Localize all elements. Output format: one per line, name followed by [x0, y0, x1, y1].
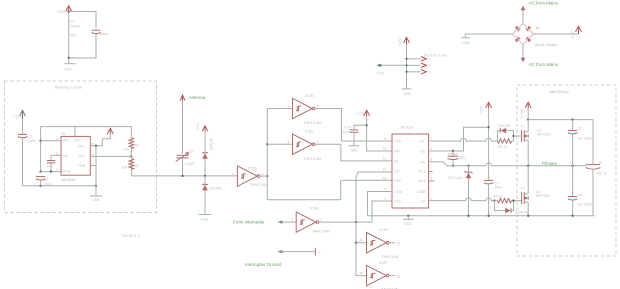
svg-text:IC2B: IC2B: [248, 166, 257, 171]
wire bridge minus to gnd: [465, 34, 512, 37]
svg-text:IC2D: IC2D: [305, 93, 314, 98]
trimmer capacitor C16: [176, 153, 189, 162]
svg-text:3: 3: [385, 187, 387, 191]
pin stub R4: [429, 171, 433, 173]
mosfet Q1: [522, 120, 529, 166]
dashed box Half Bridge: [517, 85, 616, 256]
wire to IC2E input: [356, 242, 367, 244]
svg-text:COM: COM: [394, 190, 402, 194]
svg-text:VSS: VSS: [394, 200, 402, 204]
svg-text:8: 8: [317, 104, 319, 108]
svg-text:C8: C8: [578, 193, 583, 197]
svg-text:74HC14N: 74HC14N: [312, 228, 330, 233]
junction mid node: [527, 165, 529, 167]
junction C4 bottom: [50, 170, 52, 172]
svg-text:100pF: 100pF: [185, 162, 195, 166]
wire riser to LIN pin: [341, 179, 392, 181]
wire interrupter to IC2A: [281, 221, 297, 223]
svg-text:IRFP250: IRFP250: [537, 133, 551, 137]
svg-text:T1: T1: [521, 124, 525, 128]
svg-text:T2: T2: [521, 186, 525, 190]
junction antenna-bus: [181, 175, 183, 177]
svg-text:GND: GND: [403, 92, 411, 96]
wire to IC2C input: [267, 143, 292, 145]
wire bridge AC top with arrow: [521, 6, 526, 24]
wire V1 lower: [488, 184, 490, 216]
wire bottom rail: [23, 185, 97, 187]
pin stub R5: [429, 180, 435, 182]
wire VCC down to rail: [95, 146, 97, 186]
svg-text:1N4744A: 1N4744A: [448, 176, 463, 180]
wire cap to rail: [22, 138, 24, 186]
svg-text:AC from Mains: AC from Mains: [529, 62, 559, 67]
junction Q2 source gnd: [527, 215, 529, 217]
svg-text:9: 9: [385, 137, 387, 141]
svg-text:100nF: 100nF: [70, 24, 80, 28]
svg-text:SD: SD: [394, 160, 399, 164]
junction IC2B out: [266, 175, 268, 177]
pin arrow 2: [421, 63, 427, 67]
junction LO loop left: [493, 199, 495, 201]
junction gate B input tap: [266, 143, 268, 145]
wire IC2D out to HIN: [315, 109, 392, 142]
wire to IC pin TR: [41, 140, 61, 142]
wire to IC pin GND: [41, 171, 61, 173]
junction pin1: [405, 58, 407, 60]
svg-text:LIN: LIN: [394, 170, 400, 174]
node junction top: [68, 10, 70, 12]
svg-text:3: 3: [429, 71, 431, 75]
svg-text:HO: HO: [419, 140, 425, 144]
supply arrow P7: [486, 102, 492, 108]
svg-text:4: 4: [262, 172, 264, 176]
svg-text:2: 2: [321, 218, 323, 222]
svg-text:NC2: NC2: [419, 179, 426, 183]
svg-text:1N4148: 1N4148: [498, 124, 510, 128]
wire interrupter ground: [281, 251, 316, 253]
svg-text:VS: VS: [420, 160, 425, 164]
svg-text:5: 5: [431, 158, 433, 162]
capacitor C2 (polarized): [36, 177, 46, 180]
svg-text:74HC14N: 74HC14N: [381, 254, 399, 259]
svg-text:IC2E: IC2E: [379, 227, 388, 232]
wire JP1 vertical: [406, 45, 408, 89]
capacitor C6 divider top: [568, 120, 578, 166]
svg-text:100n: 100n: [28, 139, 36, 143]
wire JP1 pin3: [407, 71, 421, 73]
diode B1b: [526, 26, 532, 32]
svg-text:DC-DC Conv: DC-DC Conv: [424, 52, 447, 57]
svg-text:450 uF: 450 uF: [596, 172, 607, 176]
pin bar interrupter ground: [314, 248, 316, 256]
junction left pin3: [39, 170, 41, 172]
svg-text:35V: 35V: [459, 156, 466, 160]
svg-text:74HC14N: 74HC14N: [303, 120, 321, 125]
wire IC2B out: [260, 175, 267, 177]
diode B1a: [515, 26, 521, 32]
svg-text:IR2110: IR2110: [401, 125, 414, 130]
wire C10 to gnd: [353, 133, 355, 146]
wire OUT pin to resistor mid: [90, 155, 131, 157]
svg-text:IC2F: IC2F: [379, 260, 388, 265]
ground GND5: [403, 218, 414, 220]
svg-text:6: 6: [431, 147, 433, 151]
wire V1 upper: [488, 108, 490, 180]
wire antenna upper: [182, 101, 184, 154]
capacitor C9 bus: [586, 120, 601, 216]
IC1 body: [61, 136, 90, 175]
svg-text:IC1: IC1: [61, 131, 66, 135]
junction V1 gnd: [487, 215, 489, 217]
wire gnd stub: [68, 58, 70, 63]
wire gnd stub: [407, 216, 409, 219]
svg-text:IC2C: IC2C: [305, 129, 314, 134]
svg-text:+12V: +12V: [14, 114, 23, 118]
svg-text:R3 10: R3 10: [498, 145, 507, 149]
supply arrow P6 HV: [525, 102, 531, 108]
svg-text:GND: GND: [64, 68, 72, 72]
svg-text:+12V: +12V: [376, 72, 385, 76]
node junction bottom: [68, 57, 70, 59]
junction divider mid: [571, 165, 573, 167]
wire IC top pin: [74, 127, 76, 137]
wire supply to VDD: [367, 116, 392, 151]
svg-text:GND: GND: [92, 198, 100, 202]
svg-text:10: 10: [397, 242, 401, 246]
resistor R2: [129, 159, 134, 170]
junction spare tap: [355, 221, 357, 223]
wire zener chain lower: [468, 178, 470, 215]
svg-text:100n: 100n: [494, 185, 502, 189]
wire clamp mid lower: [204, 176, 206, 184]
svg-text:13: 13: [360, 271, 364, 275]
junction resistor mid: [130, 155, 132, 157]
svg-text:1N4148: 1N4148: [516, 211, 528, 215]
resistor R1: [129, 138, 134, 149]
svg-text:7: 7: [431, 137, 433, 141]
svg-text:VDD: VDD: [394, 140, 402, 144]
svg-text:Antenna: Antenna: [189, 95, 206, 100]
svg-text:+12V: +12V: [398, 38, 402, 47]
wire VSS to rail: [368, 192, 393, 216]
resistor R4: [498, 198, 512, 202]
svg-text:GND: GND: [462, 41, 470, 45]
svg-text:10: 10: [383, 147, 387, 151]
svg-text:TS100 E 1: TS100 E 1: [121, 233, 141, 238]
svg-text:OUT: OUT: [78, 154, 86, 158]
svg-text:C5 1uF: C5 1uF: [448, 152, 458, 156]
svg-text:VSS: VSS: [394, 179, 402, 183]
wire IC2A out: [319, 201, 392, 222]
svg-text:AC from Mains: AC from Mains: [529, 1, 559, 6]
svg-text:11: 11: [383, 157, 386, 161]
capacitor C1 (polarized): [91, 30, 100, 33]
wire LO loop: [495, 201, 522, 211]
diode D3 (bypass): [500, 128, 506, 133]
svg-text:C3: C3: [28, 135, 32, 139]
wire clamp lower: [204, 190, 206, 214]
junction left pin1: [39, 140, 41, 142]
ground GND3: [199, 214, 212, 216]
wire C2 bottom lead: [40, 180, 42, 186]
junction pin3: [405, 71, 407, 73]
svg-text:13: 13: [383, 176, 387, 180]
supply +12V P1 top-left: [66, 6, 72, 12]
diode bridge B1 frame: [513, 24, 534, 45]
wire JP1 pin2: [407, 64, 421, 66]
diode D1 (clamp to V+): [202, 153, 208, 159]
junction bootstrap top: [452, 150, 454, 152]
svg-text:THR: THR: [78, 164, 86, 168]
svg-text:3: 3: [232, 172, 234, 176]
wire signal riser: [267, 109, 340, 200]
inverter IC2B: [237, 166, 260, 186]
svg-text:R4 10: R4 10: [493, 195, 502, 199]
wire IC2F out stub: [389, 275, 395, 277]
svg-text:R1: R1: [135, 143, 140, 147]
junction gnd tap: [407, 215, 409, 217]
svg-text:Interrupter Ground: Interrupter Ground: [245, 262, 282, 267]
ground GND2: [90, 195, 103, 197]
diode D4 (bypass): [505, 208, 511, 213]
junction C10 tap: [365, 124, 367, 126]
svg-text:25V: 25V: [70, 34, 77, 38]
inverter IC2D: [293, 98, 316, 118]
svg-text:1N4148: 1N4148: [210, 138, 214, 150]
svg-text:2: 2: [429, 64, 431, 68]
off-page arrow: [376, 64, 381, 67]
supply arrow P4: [202, 126, 208, 132]
capacitor C10: [350, 130, 359, 132]
svg-text:COM: COM: [417, 190, 425, 194]
wire VB row: [429, 127, 489, 151]
svg-text:IC2A: IC2A: [310, 205, 319, 210]
svg-text:2: 2: [385, 197, 387, 201]
svg-text:4: 4: [431, 177, 433, 181]
svg-text:IRFP250: IRFP250: [536, 194, 550, 198]
wire HV down: [527, 108, 529, 119]
wire VS row: [429, 162, 587, 166]
diode D2 (clamp to gnd): [202, 184, 208, 190]
svg-text:GND: GND: [63, 170, 71, 174]
junction clamp-bus: [204, 175, 206, 177]
wire IC2C out to SD: [315, 144, 392, 161]
svg-text:+12V: +12V: [479, 105, 483, 114]
svg-text:From Interrupter: From Interrupter: [233, 220, 265, 225]
ground GND6: [461, 37, 470, 39]
supply arrow P5: [364, 110, 370, 116]
svg-text:100n: 100n: [343, 130, 351, 134]
svg-text:C6: C6: [578, 127, 583, 131]
resistor R3: [498, 139, 512, 143]
svg-text:Boot-Up Circuit: Boot-Up Circuit: [55, 85, 83, 90]
supply arrow P3: [107, 128, 113, 134]
svg-text:GND: GND: [201, 218, 209, 222]
zener diode D5: [464, 171, 472, 178]
svg-text:VB: VB: [420, 150, 425, 154]
wire JP1 to gnd: [402, 88, 411, 90]
interrupter ground arrow: [278, 250, 283, 253]
ground stub IC: [95, 186, 97, 196]
wire cap branch top: [69, 12, 96, 29]
supply arrow P8 HV out: [576, 26, 582, 34]
capacitor C8 divider bottom: [568, 166, 578, 216]
IC3 driver body: [392, 134, 429, 208]
svg-text:+170V: +170V: [571, 29, 575, 40]
junction pin2: [405, 64, 407, 66]
wire diode loop verticals: [498, 131, 514, 141]
svg-text:NE555N: NE555N: [61, 177, 76, 182]
wire VCC Z to supply: [90, 134, 110, 146]
junction VCC: [95, 145, 97, 147]
svg-text:GND: GND: [404, 222, 412, 226]
inverter IC2A: [296, 212, 319, 232]
diode B1c: [515, 37, 521, 43]
junction bootstrap bottom: [452, 165, 454, 167]
wire IC2E out stub: [389, 242, 395, 244]
svg-text:5: 5: [57, 151, 59, 155]
junction gate node Q1: [512, 135, 514, 137]
supply arrow P2 (dark): [20, 110, 26, 119]
wire HO row with hops: [429, 138, 498, 141]
svg-text:1: 1: [429, 58, 431, 62]
wire to off-page arrow: [381, 64, 407, 66]
dashed box Boot-Up Circuit: [5, 81, 157, 213]
svg-text:1uF 250V: 1uF 250V: [577, 136, 593, 140]
svg-text:6: 6: [57, 168, 59, 172]
wire THR stub: [90, 165, 96, 167]
wire between resistors: [130, 148, 132, 159]
svg-text:1: 1: [291, 218, 293, 222]
svg-text:LO: LO: [421, 200, 426, 204]
wire to IC2D input: [267, 108, 292, 110]
svg-text:C1: C1: [70, 20, 75, 24]
interrupter input arrow: [278, 221, 283, 224]
supply arrow P9: [404, 37, 410, 44]
wire resistor to gate node: [512, 140, 514, 142]
svg-text:+170V: +170V: [520, 108, 524, 119]
wire top rail: [528, 119, 593, 121]
svg-text:R2: R2: [135, 164, 140, 168]
junction top rail cap tap: [571, 118, 573, 120]
wire supply rail left: [68, 12, 70, 59]
svg-text:+12V: +12V: [356, 112, 365, 116]
svg-text:VCC: VCC: [75, 139, 83, 143]
svg-text:10uF: 10uF: [44, 182, 52, 186]
svg-text:1uF 250V: 1uF 250V: [577, 202, 593, 206]
capacitor C5 bootstrap: [447, 151, 458, 166]
junction LO loop right: [512, 199, 514, 201]
svg-text:100uF: 100uF: [100, 32, 109, 36]
wire C4 pin to IC: [51, 154, 61, 156]
junction zener gnd: [467, 215, 469, 217]
svg-text:1: 1: [431, 197, 433, 201]
capacitor C4 small: [47, 155, 55, 171]
junction rail left: [39, 185, 41, 187]
wire rail left segment: [368, 215, 595, 217]
svg-text:Diode Bridge: Diode Bridge: [535, 42, 559, 47]
junction HV node: [527, 118, 529, 120]
svg-text:+12V: +12V: [196, 122, 200, 131]
inverter IC2F: [367, 265, 390, 285]
svg-text:Primary: Primary: [542, 161, 558, 166]
wire LO row with hops: [429, 198, 495, 201]
junction IC2E input: [355, 242, 357, 244]
wire gate Q1: [514, 135, 522, 137]
wire resistor bottom to bus: [131, 169, 237, 176]
wire top rail inside box: [41, 127, 132, 138]
mosfet Q2: [522, 166, 529, 216]
svg-text:9: 9: [288, 104, 290, 108]
junction H1: [487, 126, 489, 128]
wire clamp mid upper: [204, 159, 206, 176]
svg-text:10n: 10n: [47, 164, 53, 168]
svg-text:1: 1: [319, 251, 321, 255]
svg-text:C16: C16: [187, 149, 193, 153]
junction rail right: [95, 185, 97, 187]
svg-text:6: 6: [317, 140, 319, 144]
svg-text:HIN: HIN: [394, 150, 401, 154]
junction zener top: [467, 165, 469, 167]
svg-text:12: 12: [383, 168, 387, 172]
junction divider gnd: [571, 215, 573, 217]
svg-text:5: 5: [288, 140, 290, 144]
pin arrow 1: [421, 57, 427, 61]
wire clamp upper: [204, 132, 206, 153]
svg-text:DIS: DIS: [78, 145, 85, 149]
inverter IC2C: [293, 134, 316, 154]
svg-text:10k: 10k: [122, 165, 128, 169]
wire antenna lower: [182, 159, 184, 176]
wire jog to LIN2 pin: [356, 172, 392, 222]
capacitor C7: [484, 180, 494, 184]
antenna net arrow up: [180, 95, 185, 102]
capacitor C3: [18, 134, 27, 137]
wire supply to cap: [22, 119, 24, 134]
inverter IC2E: [367, 233, 390, 253]
ground GND1: [65, 63, 76, 65]
svg-text:1M: 1M: [123, 148, 128, 152]
svg-text:TR: TR: [63, 154, 68, 158]
svg-text:1N4148: 1N4148: [209, 186, 221, 190]
svg-text:B1: B1: [536, 26, 540, 30]
svg-text:NC1: NC1: [419, 170, 426, 174]
svg-text:74HC14N: 74HC14N: [250, 182, 268, 187]
wire JP1 pin1: [407, 58, 421, 60]
svg-text:Half Bridge: Half Bridge: [549, 89, 570, 94]
svg-text:74HC14N: 74HC14N: [303, 156, 321, 161]
wire bridge plus to supply: [534, 33, 579, 35]
wire spare gates column: [356, 222, 367, 276]
svg-text:11: 11: [360, 238, 363, 242]
diode B1d: [526, 37, 532, 43]
pin arrow 3: [421, 70, 427, 74]
svg-text:+12V: +12V: [57, 10, 66, 14]
svg-text:12: 12: [397, 274, 401, 278]
svg-text:GND: GND: [350, 148, 358, 152]
wire bridge AC bottom with arrow: [521, 45, 526, 63]
svg-text:C2: C2: [44, 177, 49, 181]
svg-text:C9: C9: [598, 161, 603, 165]
wire C10 branch: [354, 125, 367, 129]
svg-text:RST: RST: [63, 139, 71, 143]
ground GND4: [349, 145, 359, 147]
wire left branch vertical: [40, 127, 42, 172]
wire cap branch bottom: [69, 34, 96, 58]
wire zener chain upper: [468, 166, 470, 172]
